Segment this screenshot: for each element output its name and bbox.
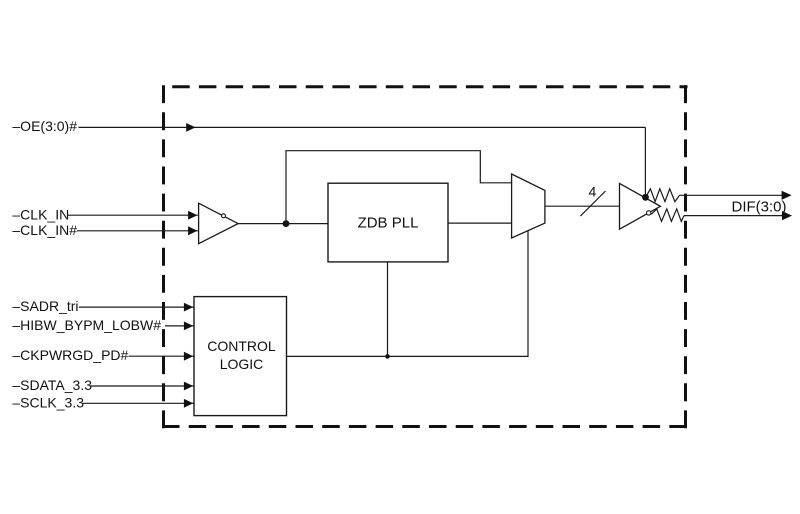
arrowhead CLK_IN# — [188, 226, 197, 235]
arrowhead SDATA_3.3 — [184, 382, 193, 391]
wire DIF true output — [680, 194, 784, 196]
arrowhead DIF complement — [782, 211, 792, 220]
arrowhead CLK_IN — [188, 211, 197, 220]
svg-text:LOGIC: LOGIC — [220, 356, 264, 372]
wire PLL to mux — [448, 222, 512, 224]
wire control logic to mux select — [287, 231, 529, 357]
svg-text:–OE(3:0)#: –OE(3:0)# — [12, 118, 77, 134]
arrowhead CKPWRGD_PD# — [184, 352, 193, 361]
dashed chip boundary left edge — [162, 85, 165, 428]
svg-text:–CKPWRGD_PD#: –CKPWRGD_PD# — [12, 347, 128, 363]
arrowhead SCLK_3.3 — [184, 399, 193, 408]
dashed chip boundary bottom edge — [162, 425, 688, 428]
wire HIBW_BYPM_LOBW# — [165, 325, 194, 327]
block CONTROL LOGIC — [194, 297, 287, 416]
wire bypass path — [286, 151, 512, 224]
wire OE vertical to output buffer enable — [644, 127, 646, 196]
svg-text:–CLK_IN#: –CLK_IN# — [12, 222, 77, 238]
bus slash — [580, 191, 605, 216]
block ZDB PLL — [328, 183, 448, 262]
arrowhead DIF true — [782, 191, 792, 200]
arrowhead OE — [186, 123, 195, 132]
junction dot A — [283, 220, 290, 227]
wire buffer output to PLL — [238, 223, 328, 225]
wire DIF complement output — [684, 215, 784, 217]
enable junction dot — [642, 194, 649, 201]
wire SDATA_3.3 — [91, 385, 194, 387]
svg-text:–CLK_IN: –CLK_IN — [12, 206, 69, 222]
output buffer bubble — [647, 211, 651, 215]
svg-text:–SCLK_3.3: –SCLK_3.3 — [12, 395, 84, 411]
input buffer U1 — [199, 203, 239, 244]
wire CKPWRGD_PD# — [129, 355, 194, 357]
wire SCLK_3.3 — [83, 402, 194, 404]
svg-text:DIF(3:0): DIF(3:0) — [732, 199, 787, 216]
wire SADR_tri — [79, 306, 194, 308]
arrowhead HIBW_BYPM_LOBW# — [184, 322, 193, 331]
output buffer U2 — [620, 183, 661, 229]
dashed chip boundary top edge — [164, 85, 688, 88]
svg-text:4: 4 — [589, 183, 597, 199]
resistor R2 (bottom series) — [651, 209, 684, 222]
wire OE — [79, 126, 646, 128]
dashed chip boundary right edge — [684, 85, 687, 428]
svg-text:–SDATA_3.3: –SDATA_3.3 — [12, 377, 92, 393]
wire CLK_IN# — [77, 230, 198, 232]
wire CLK_IN — [68, 214, 198, 216]
arrowhead SADR_tri — [184, 303, 193, 312]
wire PLL bottom to control — [387, 262, 389, 357]
junction dot B — [385, 354, 390, 359]
svg-text:–SADR_tri: –SADR_tri — [12, 298, 78, 314]
svg-text:ZDB PLL: ZDB PLL — [358, 215, 419, 232]
wire mux output — [545, 205, 620, 207]
input buffer bubble — [222, 214, 226, 218]
resistor R1 (top series) — [646, 189, 680, 202]
mux M1 — [512, 174, 545, 238]
svg-text:CONTROL: CONTROL — [207, 338, 276, 354]
svg-text:–HIBW_BYPM_LOBW#: –HIBW_BYPM_LOBW# — [12, 317, 161, 333]
